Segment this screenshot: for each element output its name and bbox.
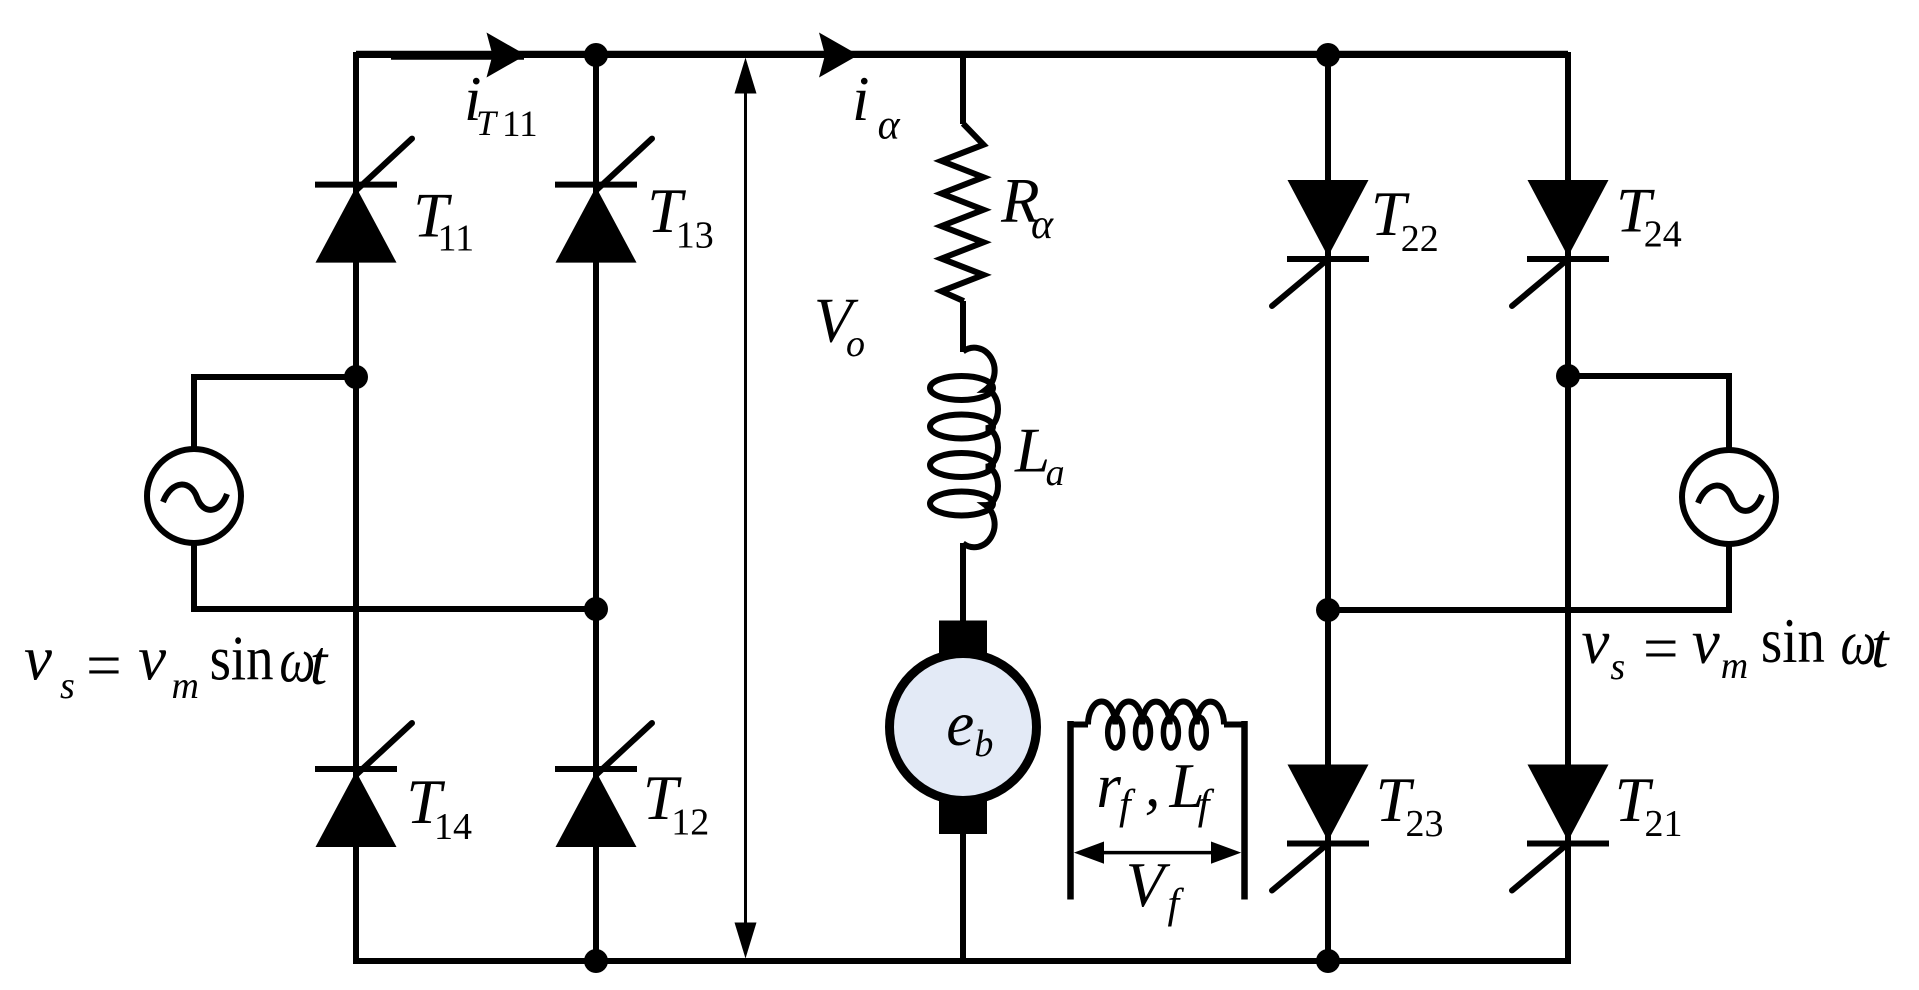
- svg-text:e: e: [946, 689, 974, 759]
- svg-text:=: =: [86, 630, 122, 700]
- svg-text:=: =: [1643, 613, 1679, 683]
- svg-text:21: 21: [1645, 803, 1683, 845]
- svg-text:14: 14: [434, 806, 472, 848]
- svg-text:T: T: [476, 103, 499, 143]
- svg-text:m: m: [1721, 645, 1748, 687]
- svg-text:,: ,: [1145, 750, 1161, 820]
- svg-text:13: 13: [676, 214, 714, 256]
- svg-text:s: s: [1610, 646, 1625, 688]
- svg-text:22: 22: [1401, 218, 1439, 260]
- svg-text:b: b: [974, 723, 993, 765]
- svg-text:o: o: [846, 323, 865, 365]
- svg-text:23: 23: [1406, 803, 1444, 845]
- svg-text:s: s: [60, 665, 75, 707]
- svg-text:12: 12: [671, 802, 709, 844]
- svg-text:m: m: [172, 665, 199, 707]
- svg-text:11: 11: [438, 218, 475, 260]
- svg-text:v: v: [1581, 607, 1609, 677]
- svg-text:sin: sin: [1761, 606, 1825, 676]
- svg-text:11: 11: [502, 104, 538, 145]
- svg-text:v: v: [24, 623, 52, 693]
- svg-text:a: a: [1046, 452, 1065, 494]
- svg-text:i: i: [852, 64, 870, 134]
- svg-text:24: 24: [1644, 214, 1682, 256]
- svg-text:sin: sin: [210, 623, 274, 693]
- svg-text:α: α: [1031, 202, 1054, 248]
- svg-text:t: t: [1871, 611, 1890, 681]
- svg-text:V: V: [1126, 850, 1171, 920]
- svg-text:r: r: [1096, 751, 1121, 821]
- svg-text:α: α: [878, 102, 901, 148]
- svg-text:t: t: [310, 628, 329, 698]
- svg-text:v: v: [138, 623, 166, 693]
- svg-text:v: v: [1692, 607, 1720, 677]
